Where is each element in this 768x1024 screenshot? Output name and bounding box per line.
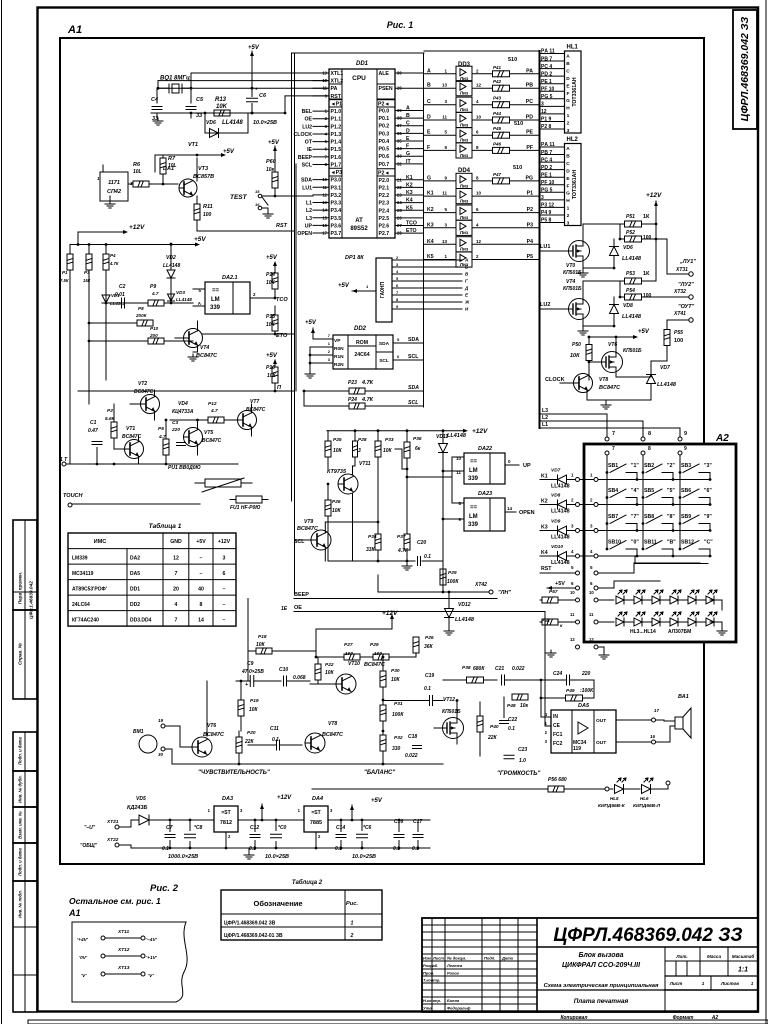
svg-text:Р44: Р44 (493, 111, 502, 116)
resistor P30 (380, 656, 401, 700)
svg-text:LU2: LU2 (540, 302, 550, 308)
svg-text:L3: L3 (542, 408, 548, 414)
resistor R23 (304, 380, 423, 394)
svg-text:Р54: Р54 (626, 288, 635, 294)
svg-text:D: D (406, 128, 410, 134)
wire p10 row (88, 270, 193, 404)
wire cap bottom rail (151, 112, 285, 115)
svg-text:2: 2 (567, 121, 570, 127)
svg-text:VT4: VT4 (200, 345, 209, 351)
svg-text:100: 100 (345, 651, 353, 657)
resistor R13 (214, 97, 230, 116)
buffer ic DD3 (456, 62, 472, 158)
svg-text:UP: UP (305, 223, 313, 229)
svg-text:15К: 15К (83, 278, 91, 283)
svg-text:Р49: Р49 (566, 688, 575, 694)
ground osc (153, 118, 163, 125)
svg-text:LL4148: LL4148 (551, 535, 570, 541)
svg-text:ОUТ: ОUТ (596, 740, 606, 746)
svg-text:100: 100 (643, 293, 652, 299)
svg-text:VD12: VD12 (458, 602, 471, 608)
svg-text:P3.7: P3.7 (331, 231, 342, 237)
wire p8 row (88, 322, 137, 325)
wire VT0 connections (578, 224, 621, 277)
svg-text:Лиз: Лиз (460, 215, 469, 220)
svg-text:Рис. 2: Рис. 2 (150, 883, 179, 894)
svg-text:P2.6: P2.6 (379, 224, 390, 230)
svg-text:Лиз: Лиз (460, 199, 469, 204)
svg-text:C: C (427, 99, 431, 105)
label ETO (276, 333, 288, 339)
svg-text:+5V: +5V (555, 581, 565, 587)
svg-text:C: C (406, 121, 410, 127)
svg-text:Р43: Р43 (493, 96, 502, 101)
svg-text:ЦФРЛ.468369.042 ЗЗ: ЦФРЛ.468369.042 ЗЗ (739, 16, 751, 121)
svg-text:DP1 8К: DP1 8К (345, 255, 364, 261)
svg-text:P3 12: P3 12 (541, 203, 554, 209)
svg-text:HL3...HL14: HL3...HL14 (630, 629, 656, 635)
svg-text:А2: А2 (711, 1015, 719, 1021)
svg-text:DA4: DA4 (312, 796, 323, 802)
resistor P40 (477, 702, 499, 756)
resistor P37 (397, 477, 410, 561)
svg-text:Т.контр.: Т.контр. (423, 978, 440, 983)
svg-text:0.47: 0.47 (88, 428, 98, 434)
svg-text:С10: С10 (279, 667, 288, 673)
svg-text:С2: С2 (119, 284, 126, 290)
svg-text:P1.6: P1.6 (331, 155, 342, 161)
svg-text:BC857В: BC857В (193, 174, 214, 180)
svg-text:LL4148: LL4148 (551, 509, 570, 515)
svg-text:Рис.: Рис. (346, 901, 359, 907)
svg-text:K3: K3 (427, 222, 434, 228)
svg-text:L2: L2 (306, 208, 312, 214)
svg-text:Р47: Р47 (493, 172, 502, 177)
svg-text:Р26: Р26 (332, 499, 341, 505)
svg-text:F: F (567, 91, 570, 97)
svg-text:Р55: Р55 (674, 330, 683, 336)
svg-text:'V': 'V' (81, 973, 87, 979)
svg-text:P0.2: P0.2 (379, 124, 390, 130)
table 2 grid (221, 890, 382, 940)
svg-text:3: 3 (541, 195, 544, 201)
margin box Perv primen (13, 520, 37, 619)
svg-text:Пров.: Пров. (423, 971, 434, 976)
svg-text:SDA: SDA (379, 341, 390, 347)
resistor P14 (266, 263, 278, 298)
svg-text:"В": "В" (667, 540, 676, 546)
svg-text:КТ9735: КТ9735 (327, 469, 347, 475)
buffer DD4 input wires (424, 175, 456, 260)
resistor P27b (344, 642, 353, 648)
wire OE (281, 605, 545, 612)
svg-text:680К: 680К (473, 666, 485, 672)
svg-text:Таблица 1: Таблица 1 (149, 522, 182, 530)
table 1 grid (68, 533, 236, 626)
svg-text:SCL: SCL (379, 358, 389, 364)
svg-text:10К: 10К (391, 677, 401, 683)
svg-text:P0.7: P0.7 (379, 162, 390, 168)
wire power ground rail (119, 845, 430, 849)
wire mic connections (165, 726, 180, 764)
svg-text:–: – (200, 556, 203, 562)
svg-text:P2.7: P2.7 (379, 231, 390, 237)
ground DD2 (305, 347, 315, 378)
svg-text:+5V: +5V (266, 255, 278, 261)
svg-text:АЛ307БМ: АЛ307БМ (668, 629, 691, 635)
svg-text:P2.3: P2.3 (379, 201, 390, 207)
svg-text:С24: С24 (553, 671, 562, 677)
svg-text:С3: С3 (172, 420, 178, 426)
svg-text:10К: 10К (266, 280, 276, 286)
svg-text:G: G (566, 98, 570, 104)
svg-text:4.7: 4.7 (210, 408, 218, 414)
svg-text:10K: 10K (216, 104, 228, 110)
wire VT9 links (325, 494, 378, 562)
svg-text:"1": "1" (631, 463, 639, 469)
svg-text:+12V: +12V (218, 539, 231, 545)
wire analog row 464 (70, 463, 238, 466)
wire VT6b collector vertical (206, 681, 208, 736)
label II (277, 385, 282, 391)
svg-text:ROM: ROM (356, 340, 368, 346)
svg-text:P5 8: P5 8 (541, 218, 552, 224)
svg-text:Лиз: Лиз (460, 153, 469, 158)
svg-text:ТОТ3361АН: ТОТ3361АН (572, 77, 578, 107)
svg-text:4.7К: 4.7К (361, 397, 374, 403)
title block lit massa masshtab (665, 947, 758, 1012)
svg-text:P2: P2 (527, 207, 533, 213)
svg-text:BEEP: BEEP (294, 592, 309, 598)
resistor P19 (238, 680, 259, 731)
svg-text:100К: 100К (447, 579, 459, 585)
svg-text:330: 330 (392, 746, 401, 752)
svg-text:Р27: Р27 (344, 642, 353, 648)
terminal XT41 OUT (667, 304, 695, 329)
svg-text:OPEN: OPEN (297, 231, 312, 237)
svg-text:SB6: SB6 (681, 488, 691, 494)
wire II long (78, 390, 294, 393)
capacitor C19 (383, 673, 443, 706)
svg-text:BC847C: BC847C (246, 407, 266, 413)
wire +5V VT (155, 149, 235, 172)
svg-text:10К: 10К (249, 707, 259, 713)
svg-text:10: 10 (570, 590, 575, 595)
svg-text:Р40: Р40 (490, 724, 499, 730)
svg-text:10L: 10L (168, 163, 177, 169)
svg-text:VT8: VT8 (599, 377, 608, 383)
svg-text:R6: R6 (133, 162, 141, 168)
svg-text:TCO: TCO (406, 221, 417, 227)
svg-text:+5V: +5V (223, 149, 235, 155)
svg-text:4.7: 4.7 (151, 291, 159, 296)
wire XT42 LN (378, 575, 511, 596)
svg-text:1: 1 (567, 113, 570, 119)
svg-text:Справ. №: Справ. № (18, 642, 23, 665)
svg-text:11: 11 (589, 612, 594, 617)
svg-text:1: 1 (702, 981, 705, 986)
svg-text:ЦФР.1.46839.042: ЦФР.1.46839.042 (29, 581, 35, 619)
svg-text:Лист: Лист (432, 956, 444, 961)
svg-text:FC2: FC2 (553, 741, 563, 747)
svg-text:R0N: R0N (334, 346, 344, 352)
svg-text:+5V: +5V (248, 45, 260, 51)
svg-text:33: 33 (196, 113, 202, 119)
display bus vertical (539, 51, 541, 428)
page bottom black strip (28, 1020, 768, 1024)
svg-text:339: 339 (468, 476, 479, 482)
svg-text:K3: K3 (406, 190, 413, 196)
svg-text:P0.4: P0.4 (379, 139, 390, 145)
diode VD6 (205, 113, 248, 138)
svg-text:PC: PC (526, 99, 533, 105)
svg-text:VТ11: VТ11 (359, 461, 371, 467)
svg-text:◄P3: ◄P3 (331, 170, 343, 176)
svg-text:Перв. примен.: Перв. примен. (18, 572, 23, 604)
svg-text:0.1: 0.1 (424, 554, 431, 560)
svg-text:LU1: LU1 (540, 244, 550, 250)
svg-text:20: 20 (173, 587, 179, 593)
svg-text:Подп. и дата: Подп. и дата (18, 736, 23, 764)
capacitor C24 (541, 671, 594, 685)
svg-text:ВС847С: ВС847С (322, 732, 344, 738)
svg-text:PSEN: PSEN (379, 86, 393, 92)
svg-text:"ОБЩ": "ОБЩ" (80, 843, 98, 849)
svg-text:XTL1: XTL1 (331, 71, 344, 77)
svg-text:Блок вызова: Блок вызова (578, 952, 623, 959)
svg-text:VT3: VT3 (198, 166, 208, 172)
svg-text:С: С (566, 68, 570, 74)
svg-text:Р19: Р19 (250, 698, 259, 704)
svg-text:PD 2: PD 2 (541, 71, 552, 77)
svg-text:3: 3 (358, 448, 361, 454)
svg-text:"6": "6" (704, 488, 712, 494)
label C14 C15 voltage (352, 854, 376, 860)
svg-text:DA2: DA2 (130, 556, 140, 562)
svg-text:КП501Б: КП501Б (442, 709, 461, 715)
keypad K diodes (540, 468, 598, 567)
svg-text:ТОUCH: ТОUCH (63, 493, 84, 499)
diode VD5 (127, 796, 149, 825)
svg-text:220: 220 (581, 671, 591, 677)
label A1 bottom (68, 908, 81, 918)
power +5V P60 (268, 140, 280, 165)
mosfet VT12 (434, 697, 464, 744)
svg-text:Р50: Р50 (572, 342, 581, 348)
svg-text:FU1 НF-Р0Ю: FU1 НF-Р0Ю (230, 505, 261, 511)
svg-text:DD1: DD1 (356, 61, 369, 67)
label SCL mid (294, 539, 305, 545)
wire C24 P49 loop (541, 680, 594, 698)
svg-text:LM: LM (469, 468, 478, 474)
led row 1 HL3-HL8 (598, 590, 722, 610)
svg-text:4.7К: 4.7К (361, 380, 374, 386)
svg-text:SB7: SB7 (608, 514, 618, 520)
svg-text:SB2: SB2 (644, 463, 654, 469)
wire VT11 links (353, 466, 356, 475)
varistor PU1 (195, 478, 252, 492)
title block frame (422, 918, 758, 1012)
keypad RST pin (540, 565, 598, 575)
svg-text:SCL: SCL (408, 354, 419, 360)
svg-text:3: 3 (567, 221, 570, 227)
wire VT8 collector emitter (587, 385, 651, 410)
capacitor C23 (504, 747, 527, 764)
comparator DA22 (443, 446, 531, 484)
svg-text:10К: 10К (256, 642, 266, 648)
resistor P36b (413, 635, 434, 657)
svg-text:13: 13 (442, 239, 448, 244)
wire beep vertical (247, 599, 249, 682)
svg-text:D: D (427, 115, 431, 121)
terminal XT22 (80, 837, 119, 849)
resistor P51 (620, 214, 656, 227)
svg-text:Р18: Р18 (258, 634, 267, 640)
transistor VT10 (310, 661, 386, 694)
svg-text:КД243Б: КД243Б (127, 805, 148, 811)
wire RST long (197, 228, 294, 231)
diode VD7 (647, 361, 677, 388)
svg-text:10: 10 (589, 590, 594, 595)
svg-text:PB: PB (526, 83, 533, 89)
svg-text:PD 2: PD 2 (541, 165, 552, 171)
svg-text:"ЧУВСТВИТЕЛЬНОСТЬ": "ЧУВСТВИТЕЛЬНОСТЬ" (198, 770, 270, 776)
svg-text:3: 3 (223, 556, 226, 562)
svg-text:8: 8 (648, 431, 651, 437)
wire DA5 outs (616, 708, 660, 744)
svg-text:PС 4: PС 4 (541, 157, 552, 163)
footer texts (560, 1015, 718, 1021)
resistor P31 (380, 699, 404, 731)
svg-text:Лист: Лист (669, 981, 683, 986)
svg-text:ХТ21: ХТ21 (106, 819, 119, 825)
capacitor C9 (236, 661, 281, 688)
svg-text:4: 4 (175, 602, 178, 608)
buffer DD3 input wires (424, 68, 456, 151)
display HL2 (565, 137, 582, 227)
power +5V osc (248, 45, 260, 114)
wire left vertical to VT2 (105, 296, 108, 380)
svg-text:А2: А2 (715, 433, 729, 444)
resistor network DP1 (345, 255, 392, 322)
svg-text:BEL: BEL (302, 109, 313, 115)
svg-text:VT0: VT0 (566, 263, 575, 269)
svg-text:R11: R11 (203, 204, 213, 210)
svg-text:P1 9: P1 9 (541, 117, 552, 123)
svg-text:OT: OT (305, 140, 313, 146)
svg-text:LL4148: LL4148 (176, 297, 192, 302)
resistor P47 and DD4 outputs (472, 165, 539, 260)
svg-text:LL4148: LL4148 (447, 433, 467, 439)
power +12V out (277, 795, 292, 801)
svg-text:–: – (200, 571, 203, 577)
diode VD8 (610, 297, 642, 320)
svg-text:DD3.DD4: DD3.DD4 (130, 618, 152, 624)
svg-text:"5": "5" (667, 488, 675, 494)
svg-text:PА 11: PА 11 (541, 142, 555, 148)
power +5V left rail (70, 236, 206, 247)
svg-text:VD10: VD10 (551, 544, 563, 550)
svg-text:4.7К: 4.7К (109, 261, 119, 266)
svg-text:–: – (223, 618, 226, 624)
svg-text:С21: С21 (495, 666, 504, 672)
diode VD6b (610, 239, 642, 262)
svg-text:10L: 10L (133, 169, 142, 175)
speaker BA1 (656, 694, 692, 742)
svg-text:Лиз: Лиз (460, 107, 469, 112)
svg-text:SB9: SB9 (681, 514, 691, 520)
svg-text:P1.3: P1.3 (331, 132, 342, 138)
svg-text:Р16: Р16 (266, 365, 275, 371)
wire ETO row (198, 323, 295, 334)
audio top rail resistors (316, 642, 416, 660)
svg-text:VT5: VT5 (204, 430, 213, 436)
svg-text:СП42: СП42 (107, 189, 121, 195)
svg-text:10.0×25В: 10.0×25В (253, 120, 277, 126)
power +12V mid (443, 428, 488, 435)
svg-text:11: 11 (570, 612, 575, 617)
svg-text:VD6: VD6 (206, 120, 216, 126)
capacitor C21 (495, 666, 542, 685)
transistor VT3 (179, 142, 214, 204)
svg-text:P3.5: P3.5 (331, 216, 342, 222)
svg-text:Лиз: Лиз (460, 262, 469, 267)
svg-text:13: 13 (442, 83, 448, 88)
svg-text:VP: VP (334, 338, 341, 344)
svg-text:С22: С22 (508, 717, 517, 723)
svg-text:Р9: Р9 (150, 284, 156, 290)
svg-text:'0V': '0V' (79, 955, 88, 961)
title block plate cell (537, 990, 665, 1005)
svg-text:10.0×25В: 10.0×25В (265, 854, 289, 860)
capacitor C15 polarized (357, 819, 372, 848)
svg-text:339: 339 (468, 522, 479, 528)
svg-text:"С": "С" (704, 540, 713, 546)
svg-text:2: 2 (350, 933, 354, 939)
svg-text:Р52: Р52 (626, 230, 635, 236)
resistor P49 (541, 688, 594, 701)
svg-text:17: 17 (654, 708, 660, 713)
resistor P50 (570, 337, 592, 380)
wire +12V arrowed (260, 804, 264, 821)
svg-text:Рогов: Рогов (447, 971, 460, 976)
capacitor C5 (186, 88, 204, 119)
svg-text:В: В (566, 61, 570, 67)
svg-text:+5V: +5V (194, 236, 206, 243)
label TCO (276, 297, 288, 303)
svg-text:6к: 6к (415, 446, 421, 452)
svg-text:С23: С23 (518, 747, 527, 753)
resistor P26m (325, 483, 342, 561)
capacitor C14 (335, 819, 346, 852)
transistor VT11 (327, 461, 371, 494)
power +5V P16 (266, 353, 278, 364)
svg-text:Р20: Р20 (247, 730, 256, 736)
svg-text:10К: 10К (333, 448, 343, 454)
svg-text:0.068: 0.068 (293, 675, 306, 681)
svg-text:DD2: DD2 (354, 326, 367, 332)
svg-text:ХТ13: ХТ13 (117, 965, 130, 971)
svg-text:КП501Б: КП501Б (563, 286, 582, 292)
svg-text:SCL: SCL (302, 162, 313, 168)
resistor R7 (160, 155, 177, 185)
display HL1 pin rows (540, 49, 565, 131)
svg-text:16: 16 (650, 734, 656, 739)
power +5V DD2 (305, 320, 333, 339)
svg-text:1: 1 (351, 921, 354, 927)
svg-text:ТОТ3361АН: ТОТ3361АН (572, 170, 578, 200)
label LU2 (540, 302, 550, 308)
